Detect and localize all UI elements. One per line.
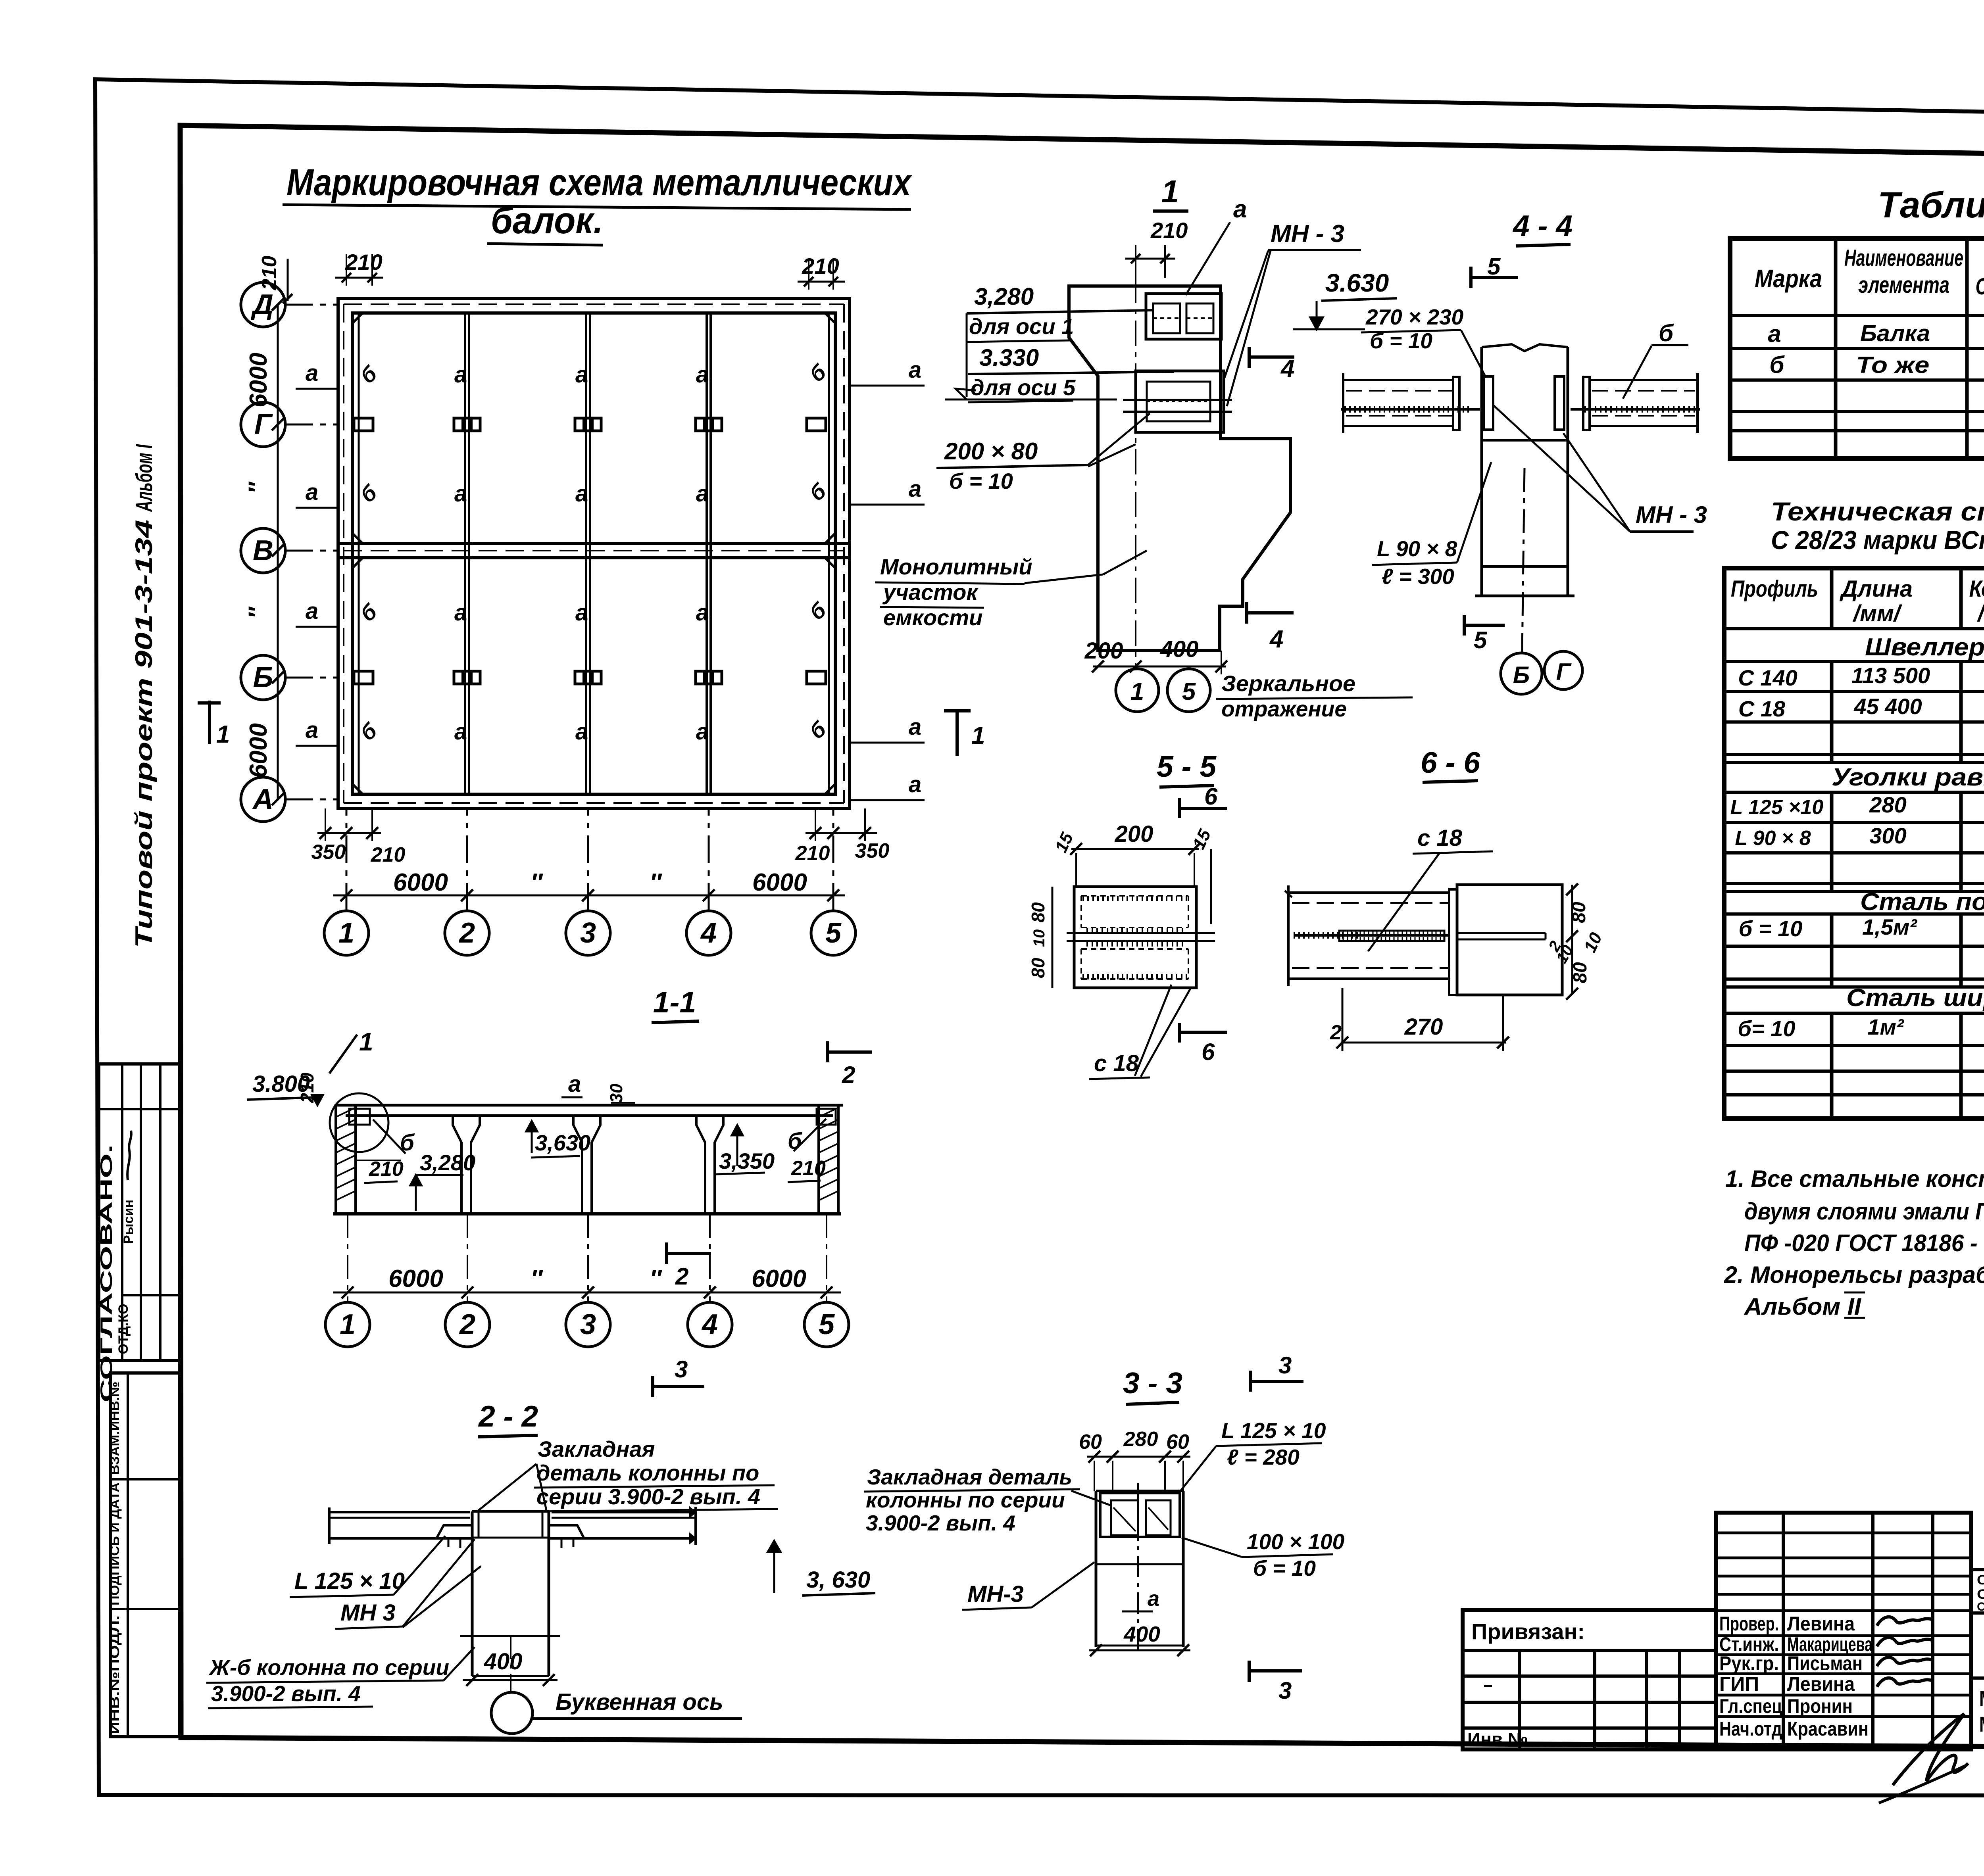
section 4-4: left beam [1341, 373, 1480, 433]
section 2-2: label [478, 1400, 538, 1437]
section 4-4: cut mark 5 (top) [1471, 253, 1518, 288]
svg-text:А: А [252, 783, 273, 815]
svg-text:С МЕДЛЕННЫМИ ФИЛЬТРАМИ ПРОИЗВО: С МЕДЛЕННЫМИ ФИЛЬТРАМИ ПРОИЗВОДИТЕЛЬНОСТ… [1977, 1600, 1984, 1613]
svg-text:Типовой проект 901-3-134: Типовой проект 901-3-134 [131, 520, 157, 948]
svg-text:270 × 230: 270 × 230 [1365, 305, 1464, 329]
section 3-3: cut mark 3 (bottom) [1249, 1661, 1302, 1704]
svg-text:Письман: Письман [1787, 1652, 1863, 1674]
svg-text:280: 280 [1123, 1428, 1158, 1451]
svg-text:ГИП: ГИП [1719, 1673, 1759, 1695]
detail 1: lower embed assembly MN-3 [1123, 371, 1232, 432]
title block: staff rows text [1719, 1613, 1873, 1740]
section 4-4: right beam [1571, 373, 1700, 433]
section 1-1: cut mark 2 (top) [827, 1041, 872, 1088]
svg-text:а: а [306, 717, 318, 743]
svg-text:5 - 5: 5 - 5 [1157, 750, 1217, 783]
plan: axis number circles [324, 808, 856, 955]
steel spec: headers [1731, 576, 1984, 626]
svg-text:Привязан:: Привязан: [1471, 1619, 1585, 1644]
sections table: row a [1768, 321, 1984, 361]
svg-text:2. Монорельсы разработаны на: 2. Монорельсы разработаны на чертежах Т.… [1724, 1262, 1984, 1288]
section 3-3: 100x100 callout [1182, 1529, 1345, 1580]
svg-text:б = 10: б = 10 [1253, 1556, 1316, 1580]
svg-text:5: 5 [1182, 678, 1196, 705]
svg-text:″: ″ [531, 869, 543, 896]
section 3-3: L125x10 callout [1179, 1418, 1326, 1492]
svg-text:с 18: с 18 [1094, 1050, 1139, 1076]
svg-text:ℓ = 300: ℓ = 300 [1382, 564, 1454, 589]
svg-text:2: 2 [1330, 1021, 1342, 1044]
svg-text:Рысин: Рысин [121, 1200, 136, 1244]
svg-text:210: 210 [297, 1072, 317, 1103]
title block: signatures [1877, 1617, 1968, 1803]
svg-text:6000: 6000 [388, 1265, 443, 1292]
svg-text:6000: 6000 [245, 723, 272, 778]
svg-text:Левина: Левина [1787, 1613, 1855, 1635]
left margin: inventory stamp [108, 1373, 180, 1737]
svg-text:с 18: с 18 [1417, 825, 1463, 851]
section 5-5: C18 label with leaders [1089, 985, 1190, 1079]
section 2-2: 400 dim [463, 1649, 558, 1686]
svg-text:″: ″ [650, 869, 662, 896]
section 1-1: cut mark 3 [653, 1356, 704, 1397]
plan: tank walls [338, 299, 850, 808]
title block: station description [1971, 1573, 1984, 1613]
svg-text:СТАНЦИЯ ОЧИСТКИ ВОДЫ ПОВЕРХНОС: СТАНЦИЯ ОЧИСТКИ ВОДЫ ПОВЕРХНОСТНЫХ ИСТОЧ… [1977, 1573, 1984, 1588]
section 3-3: column with embed [1096, 1483, 1183, 1651]
section 1-1: columns with capitals [453, 1116, 723, 1214]
section 5-5: label [1157, 750, 1217, 787]
svg-text:1: 1 [971, 722, 985, 749]
svg-text:210: 210 [791, 1157, 826, 1180]
section 1-1: elevation 3,280 [410, 1150, 475, 1211]
svg-text:Закладная: Закладная [538, 1436, 655, 1461]
svg-text:6: 6 [1204, 783, 1218, 810]
svg-text:80: 80 [1028, 902, 1048, 923]
detail 1: section mark 4 (bottom) [1247, 602, 1294, 653]
section 1-1: cut mark 1 with slant [329, 1027, 373, 1073]
svg-text:серии 3.900-2 вып. 4: серии 3.900-2 вып. 4 [536, 1484, 760, 1509]
section 1-1: wall top embed details [330, 1093, 836, 1152]
svg-text:а: а [306, 479, 318, 505]
svg-text:а: а [1148, 1587, 1159, 1611]
section 2-2: elevation 3,630 [768, 1541, 875, 1596]
svg-text:4: 4 [1280, 355, 1294, 382]
svg-text:а: а [575, 362, 588, 388]
svg-text:Д: Д [250, 289, 273, 321]
svg-text:2: 2 [458, 917, 475, 949]
section 2-2: embed detail note (left) [534, 1436, 778, 1511]
steel spec: section Stal shirokopolosnaya [1738, 984, 1984, 1041]
svg-text:Наименование: Наименование [1844, 245, 1963, 271]
detail 1: mirror note [1216, 671, 1413, 721]
title block: privyazan table [1463, 1610, 1716, 1749]
section 2-2: corner angle brackets [436, 1525, 584, 1548]
svg-text:МН-3: МН-3 [967, 1581, 1024, 1607]
left margin: album label [131, 444, 157, 513]
svg-text:Закладная деталь: Закладная деталь [867, 1465, 1072, 1489]
svg-text:4: 4 [701, 1309, 718, 1340]
svg-text:Г: Г [254, 409, 273, 440]
svg-text:ПОДПИСЬ И ДАТА: ПОДПИСЬ И ДАТА [108, 1482, 122, 1605]
svg-text:а: а [575, 719, 588, 745]
svg-text:б: б [1659, 320, 1674, 346]
svg-text:210: 210 [371, 843, 406, 866]
svg-text:для оси 1: для оси 1 [969, 314, 1074, 339]
detail 1: axis centerline [1135, 278, 1136, 667]
svg-text:а: а [696, 719, 709, 745]
section 1-1: top slab beam [336, 1105, 843, 1116]
detail 1: 200x80 plate callout [936, 413, 1150, 493]
section 1-1: axis circles 1-5 [325, 1302, 849, 1347]
svg-text:Инв.№: Инв.№ [1467, 1729, 1528, 1749]
svg-text:колонны по серии: колонны по серии [866, 1488, 1065, 1512]
svg-text:210: 210 [258, 256, 281, 291]
svg-text:а: а [575, 600, 588, 626]
svg-text:80: 80 [1570, 962, 1591, 983]
svg-text:двумя слоями эмали ПФ-115 по: двумя слоями эмали ПФ-115 по ГОСТ 6465 -… [1744, 1198, 1984, 1225]
svg-text:/шт/: /шт/ [1976, 601, 1984, 626]
section 5-5: cut mark 6 (bottom) [1179, 1023, 1227, 1065]
section 2-2: column note [206, 1647, 475, 1708]
svg-text:2 - 2: 2 - 2 [478, 1400, 538, 1433]
svg-text:3: 3 [1278, 1352, 1292, 1379]
svg-text:″: ″ [650, 1265, 662, 1292]
svg-text:С СОДЕРЖАНИЕМ ВЗВЕШЕННЫХ ВЕЩЕС: С СОДЕРЖАНИЕМ ВЗВЕШЕННЫХ ВЕЩЕСТВ ДО 700 … [1977, 1587, 1984, 1602]
svg-text:210: 210 [795, 842, 830, 865]
notes text [1724, 1166, 1984, 1320]
section 2-2: embed detail note (right) [864, 1465, 1111, 1535]
svg-text:3.330: 3.330 [979, 344, 1039, 371]
section 1-1: 210 dims [356, 1157, 826, 1183]
plan: beam mark letters [296, 357, 925, 800]
plan: monorail bracket plates MN-3 [354, 418, 826, 684]
section 4-4: L90x8 callout [1372, 462, 1491, 589]
svg-text:280: 280 [1869, 792, 1906, 817]
svg-text:L 90 × 8: L 90 × 8 [1735, 827, 1811, 850]
svg-text:45 400: 45 400 [1853, 694, 1922, 719]
svg-text:350: 350 [311, 841, 346, 864]
svg-text:а: а [454, 481, 467, 507]
sections table: title [1878, 185, 1984, 225]
detail 1: label [1153, 174, 1188, 211]
plan: section cut mark 1 (left) [198, 701, 230, 748]
title block: object name [1971, 1613, 1984, 1749]
svg-text:1: 1 [1130, 678, 1144, 705]
svg-text:участок: участок [882, 580, 979, 605]
section 6-6: C18 label with leader [1368, 825, 1493, 951]
sections table: grid [1730, 238, 1984, 459]
svg-text:для оси 5: для оси 5 [971, 375, 1076, 400]
section 1-1: walls [333, 1105, 841, 1214]
section 1-1: a label top [561, 1071, 635, 1103]
section 6-6: end plate and column plate [1449, 885, 1562, 995]
drawing frame [180, 125, 1984, 1749]
section 2-2: column [460, 1511, 560, 1676]
detail 1: label MN-3 with leaders [1225, 220, 1361, 406]
svg-text:5: 5 [1474, 627, 1488, 653]
section 2-2: MN 3 callout [335, 1539, 481, 1629]
section 3-3: cut mark 3 (top) [1251, 1352, 1303, 1392]
svg-text:Кол-во: Кол-во [1969, 576, 1984, 602]
svg-text:ИНВ.№ПОДЛ.: ИНВ.№ПОДЛ. [108, 1615, 122, 1734]
svg-text:6000: 6000 [245, 353, 272, 407]
svg-text:С 18: С 18 [1738, 696, 1786, 721]
svg-text:Альбом I: Альбом I [131, 444, 157, 513]
svg-text:100 × 100: 100 × 100 [1247, 1529, 1345, 1554]
svg-text:1: 1 [1161, 174, 1179, 209]
svg-text:200 × 80: 200 × 80 [944, 438, 1038, 465]
section 4-4: cut mark 5 (bottom) [1464, 615, 1505, 653]
svg-text:2: 2 [459, 1309, 475, 1340]
title block: staff table grid [1716, 1513, 1971, 1749]
svg-text:Зеркальное: Зеркальное [1221, 671, 1355, 696]
svg-text:5: 5 [819, 1309, 835, 1340]
svg-text:а: а [568, 1071, 581, 1097]
svg-text:6 - 6: 6 - 6 [1421, 746, 1480, 779]
steel spec: grid [1724, 568, 1984, 1119]
steel spec: title [1771, 497, 1984, 555]
svg-text:б = 10: б = 10 [949, 469, 1013, 493]
section 1-1: label [652, 985, 699, 1023]
section 5-5: 80/10/80 dims [1028, 887, 1052, 988]
left margin: project label [131, 520, 157, 948]
svg-text:Балка: Балка [1860, 321, 1930, 346]
sheet title [283, 161, 913, 245]
svg-text:б = 10: б = 10 [1739, 916, 1803, 941]
svg-text:ПФ -020 ГОСТ 18186 - 72.: ПФ -020 ГОСТ 18186 - 72. [1744, 1230, 1984, 1256]
svg-text:300: 300 [1869, 823, 1906, 848]
svg-text:L 90 × 8: L 90 × 8 [1377, 536, 1457, 561]
svg-text:400: 400 [1123, 1622, 1160, 1646]
svg-text:Марка: Марка [1755, 264, 1822, 293]
section 3-3: top dims 60/280/60 [1079, 1428, 1190, 1492]
svg-text:10: 10 [1030, 929, 1048, 947]
svg-text:1-1: 1-1 [653, 985, 696, 1019]
svg-text:60: 60 [1079, 1431, 1102, 1454]
plan: bottom dimension line 6000 [333, 869, 845, 901]
svg-text:3,280: 3,280 [974, 283, 1034, 310]
svg-text:Левина: Левина [1787, 1673, 1855, 1695]
svg-text:4: 4 [700, 917, 717, 949]
svg-text:1: 1 [338, 917, 354, 949]
svg-text:5: 5 [1487, 253, 1501, 280]
svg-text:270: 270 [1404, 1014, 1443, 1040]
svg-text:Рук.гр.: Рук.гр. [1719, 1652, 1779, 1674]
section 4-4: column [1475, 344, 1575, 596]
svg-text:200: 200 [1084, 638, 1123, 664]
svg-text:а: а [454, 600, 467, 626]
steel spec: section Ugolki [1730, 764, 1984, 850]
svg-text:L 125 × 10: L 125 × 10 [294, 1568, 405, 1594]
svg-text:1м²: 1м² [1867, 1014, 1904, 1039]
section 3-3: label [1123, 1366, 1182, 1404]
svg-text:3.630: 3.630 [1325, 269, 1389, 297]
section 1-1: elevation 3.800 [247, 1071, 323, 1105]
svg-text:а: а [454, 719, 467, 745]
svg-text:Профиль: Профиль [1731, 576, 1818, 602]
svg-text:а: а [575, 481, 588, 507]
svg-text:Б: Б [253, 662, 273, 693]
detail 1: axis circles 1 and 5 [1116, 669, 1210, 712]
svg-text:3,280: 3,280 [420, 1150, 475, 1175]
svg-text:3,350: 3,350 [719, 1148, 775, 1173]
svg-text:3.900-2 вып. 4: 3.900-2 вып. 4 [866, 1511, 1015, 1535]
svg-text:МН - 3: МН - 3 [1636, 501, 1707, 528]
svg-text:80: 80 [1569, 902, 1590, 923]
svg-text:МЕТАЛЛИЧЕСКИХ БАЛОК.: МЕТАЛЛИЧЕСКИХ БАЛОК. [1979, 1713, 1984, 1736]
svg-text:400: 400 [1160, 636, 1199, 662]
svg-text:б: б [1769, 351, 1785, 378]
svg-text:Сечение: Сечение [1976, 274, 1984, 300]
svg-text:200: 200 [1115, 821, 1153, 847]
section 2-2: leader to column top [476, 1464, 547, 1512]
svg-text:400: 400 [484, 1649, 523, 1674]
section 3-3: a label [1122, 1587, 1159, 1611]
section 4-4: 270x230 callout [1361, 305, 1486, 378]
section 1-1: elevation 3,630 [526, 1121, 590, 1158]
svg-text:а: а [909, 357, 921, 383]
svg-text:L 125 ×10: L 125 ×10 [1730, 796, 1824, 819]
plan: left dimension line 6000 [244, 299, 284, 805]
svg-text:3,630: 3,630 [535, 1130, 590, 1155]
svg-text:С 140: С 140 [1738, 665, 1797, 690]
section 4-4: label [1512, 209, 1573, 246]
plan: axis letter circles [241, 282, 338, 822]
detail 1: elevation flags 3,280 / 3.330 [945, 283, 1174, 402]
svg-text:деталь колонны по: деталь колонны по [536, 1460, 759, 1485]
section 1-1: bottom dim line 6000 [333, 1265, 841, 1298]
svg-text:30: 30 [607, 1083, 626, 1103]
sections table: row b [1769, 351, 1984, 380]
detail 1: upper embed plate MN-3 [1146, 294, 1221, 339]
svg-text:3, 630: 3, 630 [806, 1567, 870, 1593]
svg-text:б= 10: б= 10 [1738, 1016, 1795, 1041]
svg-text:отражение: отражение [1221, 696, 1347, 721]
svg-text:60: 60 [1166, 1431, 1189, 1454]
svg-text:Пронин: Пронин [1787, 1695, 1853, 1717]
section 5-5: embed plate assembly [1067, 887, 1215, 988]
section 5-5: 200 dim [1051, 821, 1215, 924]
steel spec: section Stal polosovaya [1739, 888, 1984, 941]
section 1-1: column centerlines below [348, 1214, 827, 1302]
svg-text:элемента: элемента [1858, 272, 1949, 298]
detail 1: elevation 3.630 [1293, 269, 1397, 329]
svg-text:3 - 3: 3 - 3 [1123, 1366, 1182, 1400]
svg-text:СОГЛАСОВАНО.: СОГЛАСОВАНО. [97, 1144, 115, 1402]
left margin: approval stamp [97, 1064, 180, 1402]
svg-text:Ж-б колонна по серии: Ж-б колонна по серии [208, 1655, 449, 1680]
svg-text:4 - 4: 4 - 4 [1512, 209, 1573, 242]
section 1-1: cut mark 2 (bottom) [667, 1242, 711, 1290]
svg-text:/мм/: /мм/ [1852, 601, 1903, 626]
plan: top dims 210 [258, 250, 845, 309]
svg-text:5: 5 [825, 917, 842, 949]
svg-text:С 28/23 марки ВСт 3 кп2 по Г: С 28/23 марки ВСт 3 кп2 по ГОСТ 380- 71* [1771, 525, 1984, 555]
svg-text:а: а [306, 360, 318, 386]
detail 1: section mark 4 (top) [1249, 347, 1294, 382]
svg-text:Маркировочная схема металлич: Маркировочная схема металлических [286, 161, 913, 204]
svg-text:балок.: балок. [491, 200, 603, 242]
svg-text:а: а [454, 362, 467, 388]
section 1-1: elevation 3,350 [716, 1125, 775, 1174]
svg-text:ℓ = 280: ℓ = 280 [1227, 1445, 1300, 1469]
svg-text:3: 3 [580, 917, 596, 949]
svg-text:″: ″ [244, 481, 270, 493]
section 5-5: cut mark 6 (top) [1179, 783, 1227, 818]
svg-text:Длина: Длина [1839, 576, 1913, 602]
svg-text:а: а [1233, 196, 1247, 223]
section 6-6: 80/80 dims right [1545, 883, 1606, 1000]
svg-text:а: а [909, 476, 921, 502]
svg-text:Б: Б [1513, 662, 1530, 688]
svg-text:1: 1 [216, 721, 230, 748]
plan: secondary beams [359, 313, 829, 794]
svg-text:350: 350 [855, 839, 890, 862]
svg-text:Нач.отд: Нач.отд [1719, 1718, 1782, 1740]
svg-text:ОТД.КО: ОТД.КО [116, 1304, 131, 1354]
svg-text:3: 3 [675, 1356, 688, 1383]
svg-text:80: 80 [1028, 958, 1048, 978]
svg-text:6000: 6000 [393, 869, 448, 896]
svg-text:2: 2 [842, 1062, 855, 1088]
svg-text:1: 1 [359, 1027, 373, 1056]
svg-text:1. Все стальные конструкции: 1. Все стальные конструкции после монтаж… [1725, 1166, 1984, 1192]
svg-text:2: 2 [675, 1263, 688, 1290]
svg-text:а: а [1768, 321, 1781, 347]
svg-text:МАРКИРОВОЧНАЯ СХЕМА: МАРКИРОВОЧНАЯ СХЕМА [1979, 1687, 1984, 1711]
svg-text:ВЗАМ.ИНВ.№: ВЗАМ.ИНВ.№ [108, 1382, 122, 1475]
svg-text:Гл.спец: Гл.спец [1719, 1695, 1782, 1717]
svg-text:В: В [253, 535, 273, 566]
section 4-4: axis circles B G [1501, 468, 1582, 694]
section 1-1: b labels [373, 1119, 826, 1156]
svg-text:Буквенная ось: Буквенная ось [556, 1689, 723, 1715]
section 4-4: bracket plates [1484, 376, 1564, 430]
section 6-6: 270 dim [1330, 988, 1509, 1051]
svg-text:″: ″ [244, 606, 270, 618]
sections table: headers [1755, 244, 1984, 310]
section 2-2: letter axis circle [491, 1636, 742, 1734]
svg-text:113 500: 113 500 [1851, 663, 1930, 688]
svg-text:3: 3 [1278, 1677, 1292, 1704]
title block: project number cell [1971, 1513, 1984, 1570]
svg-text:МН - 3: МН - 3 [1271, 220, 1344, 248]
svg-text:МН 3: МН 3 [340, 1600, 396, 1626]
svg-text:Швеллеры ГОСТ 8240-72: Швеллеры ГОСТ 8240-72 [1865, 634, 1984, 661]
svg-text:Техническая спецификация ста: Техническая спецификация стали класса [1771, 497, 1984, 526]
svg-text:L 125 × 10: L 125 × 10 [1221, 1418, 1326, 1443]
svg-text:Таблица сечений.: Таблица сечений. [1878, 185, 1984, 225]
detail 1: 210 dim top [1125, 218, 1188, 278]
svg-text:а: а [909, 772, 921, 797]
section 2-2: L125x10 callout [290, 1536, 445, 1597]
steel spec: section Shvellery [1738, 634, 1984, 721]
svg-text:3: 3 [580, 1309, 596, 1340]
detail 1: monolith label [875, 551, 1147, 630]
svg-text:емкости: емкости [883, 605, 982, 630]
svg-text:То же: То же [1856, 352, 1930, 378]
svg-text:Г: Г [1556, 659, 1572, 685]
svg-text:210: 210 [345, 250, 382, 275]
plan: section cut mark 1 (right) [944, 711, 985, 756]
svg-text:а: а [909, 714, 921, 740]
section 6-6: channel beam [1285, 885, 1450, 986]
section 4-4: label MN-3 with leaders [1494, 405, 1707, 532]
section 4-4: label b with leader [1623, 320, 1688, 399]
svg-text:а: а [696, 362, 709, 388]
svg-text:Провер.: Провер. [1719, 1613, 1779, 1635]
